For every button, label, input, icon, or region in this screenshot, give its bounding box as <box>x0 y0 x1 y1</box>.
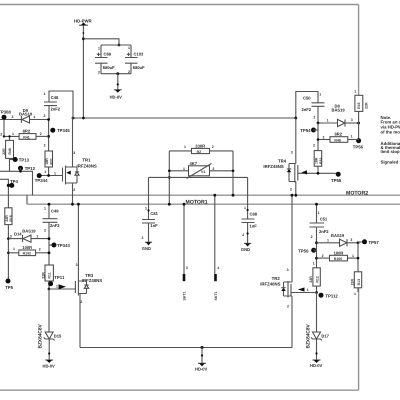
svg-text:C50: C50 <box>303 96 311 101</box>
svg-text:2: 2 <box>73 188 75 192</box>
svg-text:2: 2 <box>44 229 46 233</box>
wire gate TR3 <box>49 284 75 289</box>
wire C48 top jog <box>49 91 73 118</box>
wire gate TR4 <box>298 170 336 174</box>
svg-text:1: 1 <box>54 171 56 175</box>
wire cap-bank bottom rail <box>101 72 131 75</box>
testpoint TP58 <box>298 248 316 254</box>
diode D14 BAS19 <box>8 228 49 242</box>
svg-text:TR1: TR1 <box>82 158 91 163</box>
svg-text:2: 2 <box>0 132 2 136</box>
svg-text:TP12: TP12 <box>25 166 36 171</box>
note text block <box>381 115 400 165</box>
node drain rail y118 <box>72 117 296 120</box>
svg-text:TP4: TP4 <box>10 179 18 184</box>
svg-text:R16: R16 <box>9 215 13 221</box>
svg-text:2nF2: 2nF2 <box>319 229 329 234</box>
svg-text:1: 1 <box>307 288 309 292</box>
svg-text:R31: R31 <box>50 158 54 164</box>
svg-text:2: 2 <box>313 143 315 147</box>
testpoint TP55 <box>331 172 342 183</box>
svg-text:HD-0V: HD-0V <box>43 364 56 369</box>
testpoint TP5 <box>5 279 13 291</box>
net bottom rail wire <box>0 389 359 391</box>
wire gate TR1 <box>39 171 63 177</box>
svg-text:4K7: 4K7 <box>190 161 198 166</box>
svg-text:680uF: 680uF <box>103 65 115 70</box>
svg-text:1: 1 <box>12 132 14 136</box>
svg-text:2: 2 <box>39 247 41 251</box>
svg-text:C49: C49 <box>51 209 59 214</box>
svg-text:1: 1 <box>318 211 320 215</box>
ground GND C81 <box>142 242 152 251</box>
svg-text:1: 1 <box>327 238 329 242</box>
node gate-top right vertical <box>317 123 320 151</box>
svg-text:1: 1 <box>128 46 130 50</box>
wire left input B <box>0 179 8 208</box>
svg-text:3: 3 <box>73 151 75 155</box>
svg-text:TP388: TP388 <box>0 110 11 115</box>
svg-text:2: 2 <box>44 114 46 118</box>
svg-text:BZX84C8V: BZX84C8V <box>306 323 312 348</box>
transistor TR3 IRFZ48NS <box>75 203 102 348</box>
wire snubber left vertical <box>168 151 171 206</box>
svg-text:1: 1 <box>244 206 246 210</box>
svg-text:4: 4 <box>217 266 219 270</box>
svg-text:R102: R102 <box>23 252 31 256</box>
svg-text:680uF: 680uF <box>133 65 145 70</box>
testpoint TP54 <box>300 128 318 134</box>
svg-text:3: 3 <box>287 268 289 272</box>
svg-text:TP343: TP343 <box>57 243 70 248</box>
testpoint TP57 <box>357 239 380 245</box>
svg-text:2nF2: 2nF2 <box>50 223 60 228</box>
svg-text:3: 3 <box>291 150 293 154</box>
node gate-top left (C48/D9/R41 vertical) <box>47 118 50 151</box>
svg-text:2: 2 <box>40 132 42 136</box>
svg-text:TP13: TP13 <box>19 157 30 162</box>
connector SKT1 pin3 <box>182 203 187 301</box>
svg-text:BAS19: BAS19 <box>22 228 36 233</box>
transistor TR2 IRFZ48NS <box>260 194 293 348</box>
svg-text:22R: 22R <box>309 276 313 283</box>
node MOTOR1 bus <box>27 203 400 205</box>
svg-text:D17: D17 <box>321 333 329 338</box>
svg-text:GND: GND <box>142 246 151 251</box>
svg-text:limit stop: limit stop <box>381 149 400 154</box>
svg-text:1: 1 <box>98 46 100 50</box>
svg-text:TP58: TP58 <box>298 248 309 253</box>
resistor R2 330R <box>169 143 233 153</box>
testpoint TP344 <box>35 173 48 183</box>
svg-text:22R: 22R <box>365 102 369 109</box>
node lower-right vertical (MOTOR1 to gate2) <box>315 203 318 268</box>
svg-text:3: 3 <box>351 118 353 122</box>
svg-text:1: 1 <box>56 285 58 289</box>
resistor R48 8R2 <box>318 132 359 143</box>
wire right vertical upper (top rail to R15) <box>358 5 360 96</box>
wire right vertical lower (R13 to bottom rail) <box>358 288 360 390</box>
testpoint TP56 <box>353 138 364 149</box>
wire TP388 to R41 <box>0 120 19 138</box>
resistor R102 100R <box>8 245 49 256</box>
wire gate TR2 <box>291 287 317 292</box>
svg-text:2nF2: 2nF2 <box>302 107 312 112</box>
svg-text:8R2: 8R2 <box>23 129 31 134</box>
testpoint TP343 <box>49 243 70 249</box>
wire cap-bank top rail <box>101 44 131 46</box>
svg-text:1: 1 <box>13 247 15 251</box>
svg-text:R12: R12 <box>315 276 319 282</box>
resistor R15 22R <box>354 90 368 140</box>
svg-text:22R: 22R <box>2 148 6 155</box>
ground HD-0V cap-bank <box>110 74 123 100</box>
svg-text:3: 3 <box>10 234 12 238</box>
svg-text:2nF2: 2nF2 <box>51 107 61 112</box>
svg-text:3: 3 <box>350 238 352 242</box>
resistor R31 18R <box>44 143 54 175</box>
svg-text:2: 2 <box>322 254 324 258</box>
svg-text:Signaled: Signaled <box>381 160 399 165</box>
svg-text:HD-0V: HD-0V <box>110 94 123 99</box>
svg-text:2: 2 <box>242 233 244 237</box>
svg-text:22R: 22R <box>351 279 355 286</box>
resistor R16 22R <box>5 208 13 281</box>
svg-text:IRFZ48NS: IRFZ48NS <box>77 163 97 168</box>
svg-text:D14: D14 <box>14 231 22 236</box>
testpoint TP345 <box>50 128 70 134</box>
ground GND C88 <box>241 243 251 252</box>
transistor TR1 IRFZ48NS <box>63 118 97 206</box>
svg-text:GND: GND <box>241 247 250 252</box>
testpoint TP11 <box>48 275 65 286</box>
resistor R32 18R <box>313 143 323 173</box>
svg-text:3: 3 <box>76 263 78 267</box>
svg-text:TP345: TP345 <box>57 128 70 133</box>
svg-text:2: 2 <box>80 300 82 304</box>
svg-text:1nF: 1nF <box>250 224 258 229</box>
svg-text:IRFZ48NS: IRFZ48NS <box>263 164 283 169</box>
svg-text:HD-0V: HD-0V <box>195 366 208 371</box>
svg-text:2: 2 <box>313 115 315 119</box>
svg-text:1: 1 <box>36 234 38 238</box>
svg-text:1: 1 <box>354 90 356 94</box>
svg-text:TP55: TP55 <box>331 178 342 183</box>
capacitor C49 2nF2 <box>43 207 61 233</box>
capacitor C51 2nF2 <box>310 211 330 239</box>
diode D8 BAS19 <box>317 104 360 127</box>
svg-text:1: 1 <box>354 292 356 296</box>
node TP388 <box>0 110 21 120</box>
svg-text:2: 2 <box>44 143 46 147</box>
svg-text:TP112: TP112 <box>325 293 338 298</box>
svg-text:2: 2 <box>290 187 292 191</box>
svg-text:C81: C81 <box>150 211 158 216</box>
svg-text:R46: R46 <box>8 148 12 154</box>
resistor R11 22R <box>41 265 53 290</box>
svg-text:3: 3 <box>186 266 188 270</box>
svg-text:SKT1: SKT1 <box>214 292 218 301</box>
svg-text:BAS19: BAS19 <box>332 107 346 112</box>
testpoint TP12 <box>18 166 36 173</box>
svg-text:R13: R13 <box>357 279 361 285</box>
svg-text:22R: 22R <box>41 272 45 279</box>
svg-text:1: 1 <box>44 207 46 211</box>
svg-text:R41: R41 <box>23 135 29 139</box>
svg-text:1: 1 <box>183 167 185 171</box>
capacitor C81 1nF <box>142 177 159 242</box>
svg-text:TP56: TP56 <box>353 145 364 150</box>
svg-text:2: 2 <box>212 167 214 171</box>
svg-text:TR4: TR4 <box>278 159 287 164</box>
svg-text:TP54: TP54 <box>300 128 311 133</box>
svg-text:TP11: TP11 <box>54 275 65 280</box>
node lower-left vertical (MOTOR1 to gate3) <box>48 203 51 265</box>
svg-text:BAS19: BAS19 <box>331 233 345 238</box>
capacitor C88 1nF <box>242 177 258 243</box>
power HD-PWR <box>74 18 93 25</box>
label MOTOR2 <box>346 190 368 196</box>
svg-text:HD-PWR: HD-PWR <box>74 18 93 23</box>
svg-text:IRFZ48NS: IRFZ48NS <box>260 281 280 286</box>
svg-text:V1: V1 <box>201 170 205 174</box>
svg-text:1: 1 <box>319 93 321 97</box>
svg-text:of the mot: of the mot <box>381 130 400 135</box>
diode D9 BAS19 <box>19 108 49 123</box>
svg-text:1: 1 <box>145 206 147 210</box>
svg-text:100R: 100R <box>334 250 344 255</box>
svg-text:R48: R48 <box>334 138 340 142</box>
svg-text:1: 1 <box>313 261 315 265</box>
varistor V1 4K7 <box>169 161 233 179</box>
svg-text:1: 1 <box>351 135 353 139</box>
svg-text:R2: R2 <box>197 150 202 154</box>
svg-text:C68: C68 <box>104 52 112 57</box>
resistor R12 22R <box>309 261 320 294</box>
svg-text:R105: R105 <box>334 257 342 261</box>
testpoint TP4 <box>7 179 19 188</box>
svg-text:18R: 18R <box>45 158 49 165</box>
zener D15 BZX84C8V <box>38 289 62 369</box>
wire source return left <box>80 347 292 349</box>
svg-text:R11: R11 <box>48 272 52 278</box>
net top rail wire <box>0 4 359 6</box>
ground HD-0V center <box>195 346 208 371</box>
diode D16 BAS19 <box>317 233 359 246</box>
svg-text:1: 1 <box>184 145 186 149</box>
svg-text:1: 1 <box>44 92 46 96</box>
label MOTOR1 <box>186 199 208 205</box>
svg-text:R15: R15 <box>357 102 361 108</box>
svg-text:1: 1 <box>327 119 329 123</box>
capacitor C48 2nF2 <box>44 92 61 119</box>
resistor R105 100R <box>317 250 359 261</box>
wire C50 top jog <box>294 92 318 120</box>
capacitor C103 680uF <box>125 45 145 74</box>
svg-text:C51: C51 <box>320 217 328 222</box>
svg-text:HD-0V: HD-0V <box>310 363 323 368</box>
svg-text:330R: 330R <box>195 143 205 148</box>
svg-text:1: 1 <box>352 254 354 258</box>
svg-text:2: 2 <box>98 70 100 74</box>
resistor R46 22R <box>2 135 14 171</box>
svg-text:MOTOR1: MOTOR1 <box>186 199 208 205</box>
transistor TR4 IRFZ48NS <box>263 118 297 197</box>
wire cap-bank feed <box>83 39 120 47</box>
svg-text:MOTOR2: MOTOR2 <box>346 190 368 196</box>
svg-text:1: 1 <box>44 170 46 174</box>
svg-text:TP57: TP57 <box>369 240 380 245</box>
svg-text:8R2: 8R2 <box>335 132 343 137</box>
svg-text:3: 3 <box>12 115 14 119</box>
svg-text:1nF: 1nF <box>150 223 158 228</box>
svg-text:TP344: TP344 <box>35 178 48 183</box>
svg-text:2: 2 <box>311 235 313 239</box>
svg-text:D15: D15 <box>54 333 62 338</box>
wire snubber right vertical <box>232 151 235 197</box>
svg-text:100R: 100R <box>22 245 32 250</box>
svg-text:BAS19: BAS19 <box>19 111 33 116</box>
svg-text:2: 2 <box>323 135 325 139</box>
svg-text:TP5: TP5 <box>5 285 13 290</box>
svg-text:BZX84C8V: BZX84C8V <box>38 323 44 348</box>
zener D17 BZX84C8V <box>306 293 330 368</box>
svg-text:IRFZ48NS: IRFZ48NS <box>82 278 102 283</box>
resistor R41 8R2 <box>19 129 48 140</box>
svg-text:18R: 18R <box>314 157 318 164</box>
svg-text:R32: R32 <box>319 158 323 164</box>
svg-text:C48: C48 <box>51 95 59 100</box>
wire left input A <box>0 171 33 195</box>
svg-text:C103: C103 <box>134 52 145 57</box>
capacitor C68 680uF <box>95 45 115 74</box>
svg-text:C88: C88 <box>250 212 258 217</box>
testpoint TP112 <box>319 293 339 299</box>
svg-text:2: 2 <box>287 305 289 309</box>
svg-text:TR2: TR2 <box>272 276 281 281</box>
capacitor C50 2nF2 <box>302 93 325 123</box>
testpoint TP13 <box>10 157 30 162</box>
wire cap link y177 <box>149 176 248 178</box>
svg-text:2: 2 <box>212 145 214 149</box>
svg-text:2: 2 <box>142 236 144 240</box>
svg-text:1: 1 <box>33 115 35 119</box>
wire HD-PWR vertical <box>82 25 85 118</box>
svg-text:SKT1: SKT1 <box>182 292 186 301</box>
resistor R13 22R <box>351 243 362 296</box>
node MOTOR2 bus <box>0 195 400 204</box>
connector SKT1 pin4 <box>213 194 219 301</box>
